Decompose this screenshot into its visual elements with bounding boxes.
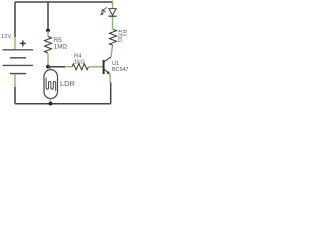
- LDR bottom pin: [50, 99, 52, 104]
- resistor R4 right pin / base pin: [89, 66, 103, 68]
- junction dot R5/LDR/base: [46, 65, 50, 69]
- svg-text:12V: 12V: [1, 34, 11, 40]
- resistor R5: [45, 37, 52, 54]
- wire middle drop: [47, 2, 49, 30]
- LED D3 light arrows: [101, 7, 107, 14]
- wire top rail: [15, 1, 113, 3]
- resistor R4 left pin: [65, 66, 72, 68]
- battery plus sign: [20, 40, 26, 46]
- LDR serpentine: [46, 78, 56, 92]
- junction dot LDR to bottom rail: [49, 102, 53, 106]
- resistor R3: [110, 29, 117, 45]
- battery B1 top pin: [14, 37, 16, 49]
- LDR top pin: [49, 68, 51, 70]
- resistor R5 bottom pin: [47, 54, 49, 67]
- wire base horizontal: [48, 66, 65, 68]
- LED D3 cathode pin: [112, 17, 114, 29]
- svg-text:1MΩ: 1MΩ: [54, 43, 68, 50]
- transistor U1 collector line: [105, 57, 111, 61]
- resistor R4: [72, 64, 89, 70]
- svg-text:1kΩ: 1kΩ: [74, 59, 85, 65]
- svg-text:470Ω: 470Ω: [116, 30, 122, 42]
- transistor U1 collector pin: [111, 46, 113, 58]
- svg-text:BC547: BC547: [112, 67, 128, 73]
- resistor R5 top pin: [47, 31, 49, 37]
- junction dot top of R5: [46, 29, 50, 33]
- LED D3 anode pin: [112, 1, 114, 9]
- transistor U1 base bar: [103, 60, 105, 74]
- wire left-bottom vertical: [14, 87, 16, 104]
- LDR body: [44, 70, 58, 99]
- wire right-bottom vertical: [110, 83, 112, 104]
- wire bottom rail: [15, 103, 111, 105]
- svg-text:LDR: LDR: [60, 79, 75, 88]
- transistor U1 emitter line: [105, 70, 110, 74]
- LED D3: [109, 9, 116, 16]
- battery B1 bottom pin: [14, 74, 16, 87]
- transistor U1 emitter arrowhead: [107, 71, 111, 74]
- transistor U1 emitter pin: [109, 74, 111, 82]
- wire left vertical: [14, 2, 16, 37]
- battery B1: [3, 50, 34, 74]
